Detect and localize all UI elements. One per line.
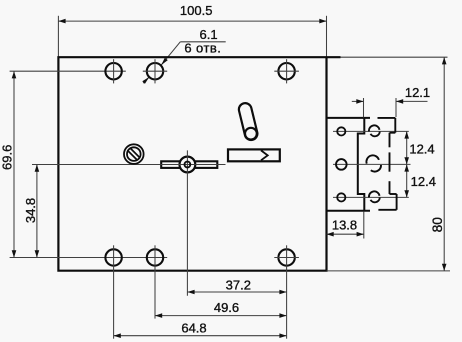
hole T3 [278, 63, 294, 79]
lever bar [161, 161, 217, 168]
hole T2 [147, 63, 163, 79]
screw head inner [127, 147, 141, 161]
screw slot line 1 [130, 148, 140, 158]
dimension 12.4 lower line [406, 164, 408, 197]
clamp S row 3 [369, 191, 380, 202]
screw slot line 2 [128, 150, 138, 160]
dimension 80 ext bottom [327, 270, 451, 272]
terminal strip bottom edge [327, 210, 371, 212]
dimension 69.6 arrow bottom [12, 250, 17, 257]
hidden outline step 2 [390, 193, 397, 195]
lever pivot inner circle [185, 162, 191, 168]
dimension 100.5 arrow left [58, 19, 65, 24]
dimension 12.1 line left tail [352, 100, 364, 102]
row 2 center line [333, 163, 411, 165]
hole T2 crosshairs [143, 70, 167, 72]
strip hole 2 [336, 159, 347, 170]
dimension 13.8 ext right [363, 212, 365, 239]
dimension 80 line [443, 57, 445, 271]
hidden outline vertical dashes [389, 133, 391, 148]
lever center line horizontal (over boss) [160, 164, 225, 166]
screw head outer [124, 144, 144, 164]
dimension 64.8 line [114, 335, 287, 337]
pin end circle [245, 128, 257, 140]
hidden outline top dash [378, 117, 396, 119]
dimension 37.2 line [187, 291, 286, 293]
hole B1 [105, 249, 121, 265]
hole T3 crosshairs [274, 70, 299, 72]
dimension 34.8 arrow bottom [35, 250, 40, 257]
clamp S row 2 [366, 155, 381, 171]
hidden outline right bottom [396, 194, 398, 210]
svg-text:12.1: 12.1 [405, 85, 430, 100]
strip hole 1 [337, 127, 345, 135]
pin capsule [238, 102, 259, 142]
hole B3 crosshairs + extension down [274, 257, 299, 259]
dimension 12.1 ext left [363, 98, 365, 117]
leader arrow lower tail [143, 77, 149, 83]
hole B1 vertical crosshair + extension to 64.8 [113, 245, 115, 338]
svg-text:34.8: 34.8 [23, 198, 38, 223]
hole T1 vertical crosshair [113, 59, 115, 83]
svg-text:37.2: 37.2 [226, 278, 251, 293]
hidden outline right top [394, 118, 396, 133]
dimension 34.8 arrow top [35, 165, 40, 172]
dimension 13.8 line [327, 233, 364, 235]
strip hole 3 [337, 193, 345, 201]
dimension 12.1 line right tail [396, 100, 428, 102]
row 1 center line [333, 130, 409, 132]
row 3 center line [333, 196, 409, 198]
svg-text:49.6: 49.6 [214, 300, 239, 315]
leader arrow upper [161, 58, 168, 65]
dimension 80 arrow bottom [442, 264, 447, 271]
hole T1 [105, 63, 121, 79]
svg-text:80: 80 [430, 217, 445, 233]
dimension 69.6 line [13, 71, 15, 257]
dimension 34.8 line [36, 165, 38, 258]
leader arrow lower [142, 77, 149, 84]
hole B2 [147, 249, 163, 265]
label 6.1 underline [180, 41, 225, 43]
svg-text:12.4: 12.4 [409, 141, 434, 156]
svg-text:6 отв.: 6 отв. [184, 40, 221, 55]
dimension 49.6 line [155, 315, 287, 317]
dimension 12.1 arrow right (pointing left) [396, 99, 403, 104]
dimension 100.5 extension line left [57, 16, 59, 57]
center line y=164.5 (34.8 ext through screw and lever) [32, 164, 226, 166]
hidden outline bottom dash [378, 209, 396, 211]
svg-text:100.5: 100.5 [180, 3, 213, 18]
svg-text:12.4: 12.4 [411, 174, 436, 189]
dimension 12.4 upper line [406, 131, 408, 164]
dimension 80 arrow top [442, 57, 447, 64]
bolt rectangle [228, 149, 280, 161]
extension line bottom row (through bottom holes) [10, 257, 168, 259]
dimension 69.6 arrow top [12, 71, 17, 78]
dimension 13.8 arrow left [327, 232, 334, 237]
bolt chevron [261, 150, 268, 160]
terminal strip right profile [358, 118, 365, 211]
dimension 12.1 ext right [395, 98, 397, 117]
dimension 100.5 line [58, 20, 326, 22]
hole B2 vertical crosshair + extension to 49.6 [154, 245, 156, 318]
dimension 100.5 extension line right [326, 16, 328, 57]
clamp S row 1 [369, 125, 380, 136]
svg-text:13.8: 13.8 [332, 217, 357, 232]
leader line to hole [161, 42, 180, 65]
hole B3 [278, 249, 294, 265]
dimension 80 ext top [341, 56, 448, 58]
dimension 12.1 arrow left (pointing right) [356, 99, 363, 104]
lever boss [180, 157, 196, 173]
svg-text:69.6: 69.6 [0, 145, 14, 170]
main plate outline [58, 57, 340, 271]
svg-text:64.8: 64.8 [181, 321, 206, 336]
terminal strip top edge [327, 117, 371, 119]
hidden outline step 1 [390, 132, 396, 134]
dimension 100.5 arrow right [319, 19, 326, 24]
dimension 13.8 arrow right [357, 232, 364, 237]
lever vertical center line + extension to 37.2 [186, 150, 188, 295]
extension line top row (69.6 dim, through holes) [10, 70, 126, 72]
